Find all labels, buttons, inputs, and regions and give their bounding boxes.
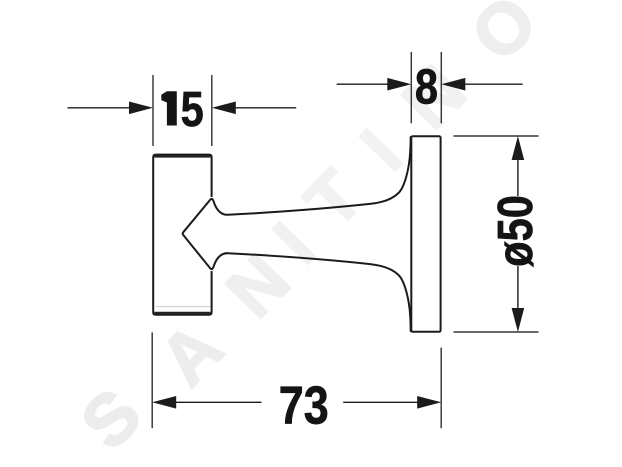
dim dia50: bottom arrow bbox=[512, 308, 525, 332]
dim 73: right dimension line bbox=[343, 401, 418, 403]
dim 8: left dimension line bbox=[337, 83, 388, 85]
dim 8: right arrow bbox=[441, 78, 465, 91]
watermark SANITINO bbox=[66, 0, 553, 465]
wall plate (8 wide, dia 50) bbox=[411, 136, 440, 331]
svg-text:5: 5 bbox=[181, 82, 204, 137]
dim 15: right dimension line bbox=[235, 107, 296, 109]
svg-text:8: 8 bbox=[415, 59, 438, 114]
knob bottom faint chamfer line bbox=[156, 306, 210, 308]
dim 15: left arrow bbox=[129, 102, 153, 115]
knob face plate (15 wide) bbox=[153, 155, 211, 315]
svg-text:O: O bbox=[456, 0, 552, 76]
dim 73: left arrow bbox=[152, 396, 176, 409]
dim 15: right extension line bbox=[211, 75, 213, 146]
dim dia50: lower dimension line bbox=[517, 266, 519, 309]
svg-text:S: S bbox=[66, 374, 157, 464]
dim 8: right dimension line bbox=[465, 83, 523, 85]
dim dia50: bottom extension line bbox=[454, 331, 539, 333]
dim 15: left dimension line bbox=[68, 107, 131, 109]
dim 8: right extension line bbox=[440, 52, 442, 123]
dim 73: left extension line bbox=[151, 332, 153, 428]
knob bottom edge inner line bbox=[154, 312, 210, 314]
dim 15: left extension line bbox=[152, 75, 154, 146]
dim 73: left dimension line bbox=[175, 401, 262, 403]
dim 73: right extension line bbox=[440, 348, 442, 429]
dim 8: left arrow bbox=[387, 78, 411, 91]
dim dia50: top arrow bbox=[512, 136, 525, 160]
dim 15: right arrow bbox=[212, 102, 236, 115]
dim 73: right arrow bbox=[417, 396, 441, 409]
svg-text:T: T bbox=[290, 156, 378, 243]
dim 15: label digit 1 bbox=[161, 91, 177, 125]
svg-text:ø50: ø50 bbox=[488, 195, 543, 267]
stem with arrow tip (hook silhouette) bbox=[183, 137, 411, 331]
dim 8: left extension line bbox=[410, 52, 412, 123]
dim dia50: upper dimension line bbox=[517, 159, 519, 196]
svg-text:73: 73 bbox=[279, 377, 329, 436]
dim dia50: top extension line bbox=[454, 135, 539, 137]
svg-text:A: A bbox=[145, 308, 239, 401]
knob top edge inner line bbox=[154, 155, 210, 157]
